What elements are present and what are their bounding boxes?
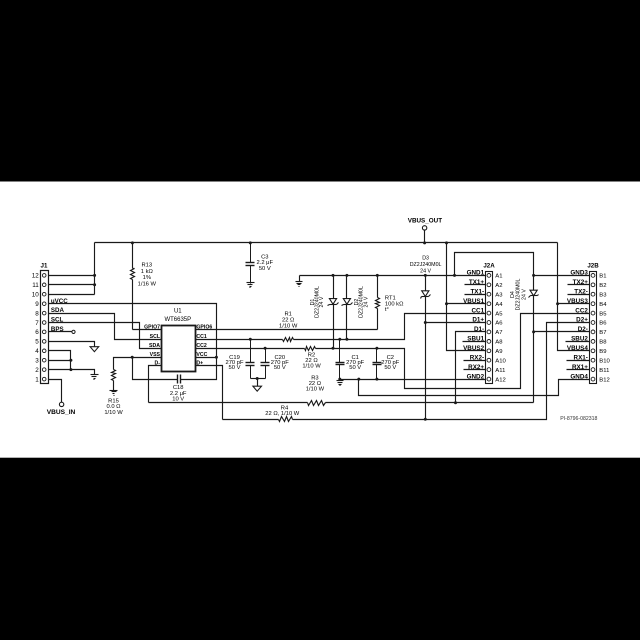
svg-text:RX1-: RX1- [574,354,588,361]
svg-text:B9: B9 [599,349,606,355]
svg-text:B1: B1 [599,274,606,280]
svg-text:50 V: 50 V [384,365,396,371]
svg-text:GND3: GND3 [570,270,588,277]
svg-text:CC1: CC1 [471,307,484,314]
svg-text:BPS: BPS [51,326,64,333]
svg-text:1 kΩ: 1 kΩ [141,269,154,275]
svg-text:9: 9 [35,301,39,308]
svg-text:VBUS4: VBUS4 [567,345,588,352]
svg-text:SCL: SCL [150,334,161,340]
svg-text:RX2-: RX2- [470,354,484,361]
svg-text:SDA: SDA [149,343,160,349]
svg-text:t°: t° [385,307,389,313]
svg-text:R1: R1 [284,311,291,317]
svg-text:6: 6 [35,329,39,336]
svg-text:B7: B7 [599,330,606,336]
svg-text:11: 11 [32,282,39,289]
svg-text:1/10 W: 1/10 W [306,387,325,393]
svg-text:A3: A3 [495,292,503,298]
svg-text:PI-8796-082318: PI-8796-082318 [560,416,597,422]
svg-text:5: 5 [35,339,39,346]
svg-text:24 V: 24 V [521,289,527,300]
svg-text:B11: B11 [599,368,609,374]
svg-text:VSS: VSS [150,352,161,358]
svg-text:50 V: 50 V [229,365,241,371]
svg-text:1/10 W: 1/10 W [104,410,123,416]
svg-text:A1: A1 [495,274,502,280]
svg-text:3: 3 [35,358,39,365]
svg-text:B4: B4 [599,302,607,308]
svg-text:50 V: 50 V [274,365,286,371]
svg-text:D+: D+ [196,361,203,367]
svg-text:uVCC: uVCC [51,298,68,305]
svg-text:A7: A7 [495,330,502,336]
svg-text:SCL: SCL [51,317,64,324]
svg-text:2: 2 [35,367,39,374]
svg-text:B12: B12 [599,377,609,383]
svg-text:GND4: GND4 [570,373,588,380]
svg-text:VCC: VCC [196,352,207,358]
svg-text:10 V: 10 V [172,397,184,403]
svg-text:24 V: 24 V [319,296,325,307]
svg-text:B3: B3 [599,292,607,298]
svg-text:22 Ω: 22 Ω [282,318,295,324]
svg-text:D2-: D2- [578,326,588,333]
svg-text:J2A: J2A [483,262,495,269]
svg-text:WT6635P: WT6635P [164,317,191,323]
svg-text:A8: A8 [495,340,503,346]
svg-text:SBU2: SBU2 [571,336,588,343]
svg-text:J2B: J2B [587,262,599,269]
svg-text:GPIO7: GPIO7 [144,325,160,331]
svg-text:A4: A4 [495,302,503,308]
svg-text:DZ2J240M0L: DZ2J240M0L [515,279,521,311]
svg-text:A6: A6 [495,321,503,327]
svg-text:B5: B5 [599,311,607,317]
svg-text:SBU1: SBU1 [467,336,484,343]
svg-text:GND2: GND2 [467,373,485,380]
svg-text:D-: D- [155,361,161,367]
svg-text:GND1: GND1 [467,270,485,277]
svg-text:SDA: SDA [51,307,65,314]
svg-text:B8: B8 [599,340,607,346]
svg-text:TX1+: TX1+ [469,279,485,286]
svg-text:CC2: CC2 [196,343,206,349]
svg-text:VBUS2: VBUS2 [463,345,484,352]
svg-text:B10: B10 [599,358,610,364]
svg-text:VBUS_OUT: VBUS_OUT [408,218,442,225]
svg-text:D1-: D1- [474,326,484,333]
svg-text:12: 12 [32,273,40,280]
svg-text:24 V: 24 V [420,268,431,274]
svg-text:TX2+: TX2+ [573,279,589,286]
svg-text:GPIO6: GPIO6 [196,325,212,331]
svg-text:B2: B2 [599,283,606,289]
svg-text:VBUS3: VBUS3 [567,298,588,305]
svg-text:1/10 W: 1/10 W [302,364,321,370]
svg-text:R13: R13 [141,263,152,269]
svg-text:RX1+: RX1+ [572,364,588,371]
svg-text:D1+: D1+ [472,317,484,324]
svg-text:8: 8 [35,310,39,317]
svg-text:B6: B6 [599,321,607,327]
svg-text:50 V: 50 V [349,365,361,371]
svg-text:1: 1 [35,376,39,383]
svg-text:TX2-: TX2- [574,288,588,295]
svg-text:A12: A12 [495,377,505,383]
svg-text:D3: D3 [422,255,429,261]
svg-text:A5: A5 [495,311,503,317]
svg-text:10: 10 [32,292,40,299]
svg-text:TX1-: TX1- [470,288,484,295]
svg-text:RX2+: RX2+ [468,364,484,371]
svg-text:J1: J1 [41,262,48,269]
svg-text:CC2: CC2 [575,307,588,314]
svg-text:A11: A11 [495,368,505,374]
svg-text:50 V: 50 V [259,266,271,272]
svg-text:1/10 W: 1/10 W [279,324,298,330]
svg-text:1/16 W: 1/16 W [138,282,157,288]
svg-text:VBUS_IN: VBUS_IN [47,409,76,416]
svg-text:4: 4 [35,348,39,355]
svg-text:D2+: D2+ [576,317,588,324]
svg-text:A10: A10 [495,358,506,364]
svg-text:24 V: 24 V [363,296,369,307]
svg-text:A9: A9 [495,349,502,355]
svg-text:U1: U1 [174,309,182,315]
svg-text:A2: A2 [495,283,502,289]
svg-text:DZ2J240M0L: DZ2J240M0L [410,262,442,268]
svg-text:22 Ω, 1/10 W: 22 Ω, 1/10 W [265,411,300,417]
svg-text:VBUS1: VBUS1 [463,298,484,305]
svg-text:CC1: CC1 [196,334,206,340]
svg-text:1%: 1% [143,275,151,281]
svg-text:7: 7 [35,320,39,327]
